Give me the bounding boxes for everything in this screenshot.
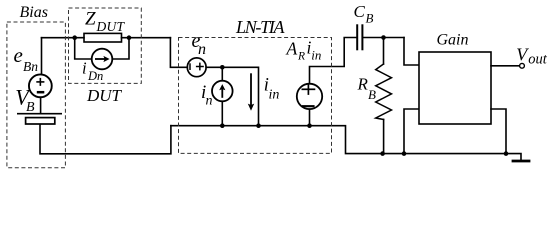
battery long plate (17, 113, 62, 115)
wire i_Dn branch right (112, 38, 129, 59)
A_R minus sign (302, 105, 315, 107)
svg-text:DUT: DUT (96, 19, 126, 34)
node C_B R_B junction (381, 35, 386, 40)
svg-text:DUT: DUT (86, 86, 123, 105)
node DUT left (72, 35, 77, 40)
node i_n bottom (220, 123, 225, 128)
svg-text:Gain: Gain (437, 32, 469, 49)
battery V_B (17, 97, 62, 124)
node ground junction (504, 151, 509, 156)
e_Bn plus sign (36, 78, 44, 86)
e_Bn minus sign (37, 91, 45, 94)
svg-text:Z: Z (85, 8, 96, 29)
wire i_n top (221, 67, 223, 80)
svg-text:Bias: Bias (20, 4, 48, 21)
svg-text:R: R (357, 74, 369, 93)
wire junction down into gain upper input (404, 38, 419, 66)
resistor R_B bottom lead (383, 120, 385, 154)
wire gain lower right to ground rail (491, 109, 506, 154)
wire bottom left rail (40, 124, 171, 154)
amplifier Gain box (419, 52, 491, 124)
current source i_n circle (212, 81, 233, 102)
svg-text:B: B (366, 11, 374, 26)
resistor R_B zigzag (376, 64, 392, 120)
svg-text:A: A (286, 39, 298, 59)
svg-text:out: out (528, 51, 548, 67)
wire capacitor to junction (363, 37, 404, 39)
i_n arrow (219, 84, 225, 98)
box DUT (69, 8, 142, 83)
node R_B bottom (380, 151, 385, 156)
i_in annotation arrow (248, 73, 254, 111)
svg-text:B: B (368, 87, 376, 102)
svg-text:B: B (26, 100, 35, 115)
current source i_Dn circle (92, 49, 113, 70)
resistor R_B top lead (383, 38, 385, 65)
controlled source A_R circle (297, 84, 322, 109)
node DUT right (127, 35, 132, 40)
capacitor C_B right plate (361, 25, 363, 49)
box LN-TIA (179, 38, 332, 154)
wire gain output to terminal (491, 65, 520, 67)
wire to ground (506, 154, 521, 161)
svg-text:in: in (311, 47, 321, 62)
wire circle to battery (40, 97, 42, 113)
e_n bar (189, 63, 191, 70)
dashed boxes (7, 8, 332, 168)
wire A_R top to capacitor (310, 38, 357, 84)
wire top horizontal to DUT (42, 37, 85, 39)
e_n plus sign (196, 63, 204, 71)
svg-text:C: C (354, 2, 366, 21)
svg-text:e: e (14, 43, 23, 67)
wire A_R bottom (309, 109, 311, 126)
box Bias (7, 22, 66, 168)
capacitor C_B left plate (356, 25, 358, 49)
A_R plus sign (302, 84, 316, 95)
battery short plate box (26, 118, 55, 124)
impedance Z_DUT body (84, 33, 122, 42)
ground bar (513, 160, 529, 163)
node gain lower input bottom (402, 151, 407, 156)
node e_n right (220, 65, 225, 70)
source symbols interiors (36, 63, 315, 107)
wire rect to right node (122, 37, 171, 39)
svg-text:n: n (198, 41, 206, 58)
svg-text:Dn: Dn (87, 69, 103, 83)
wire i_n bottom (221, 101, 223, 125)
node A_R bottom (307, 123, 312, 128)
svg-text:LN-TIA: LN-TIA (235, 17, 286, 37)
wire gain lower input (404, 109, 419, 154)
svg-text:n: n (206, 93, 213, 108)
node i_in bottom (256, 123, 261, 128)
svg-text:in: in (269, 87, 280, 102)
svg-text:i: i (82, 59, 87, 78)
wire i_Dn branch left (75, 38, 92, 59)
voltage source e_Bn circle (29, 74, 52, 97)
wire bias top vertical (41, 38, 43, 75)
svg-text:Bn: Bn (23, 59, 38, 74)
wire node to i_in corner and down (222, 67, 258, 125)
voltage source e_n circle (187, 58, 206, 77)
wire middle rail (171, 126, 506, 154)
wire e_n to node (206, 66, 222, 68)
wire down to e_n level (170, 38, 187, 68)
i_Dn arrow (95, 56, 110, 62)
terminal V_out (520, 63, 525, 68)
svg-text:R: R (297, 50, 305, 62)
